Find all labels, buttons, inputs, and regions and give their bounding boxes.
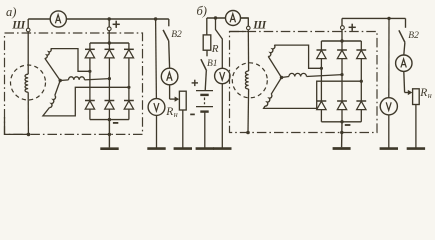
junction minus lead / frame (circuit b) [340,131,343,134]
wire switch to ammeter A2 (circuit b) [404,42,405,55]
svg-text:б): б) [197,4,207,18]
svg-text:а): а) [6,5,16,19]
wire top bus (circuit a) [28,18,169,20]
junction voltmeter branch right (circuit b) [387,17,390,20]
stator phase 3 bottom (circuit b) [271,78,281,95]
junction voltmeter branch (circuit a) [154,17,157,20]
svg-text:Ш: Ш [252,20,267,32]
junction bottom rail / minus lead (circuit a) [108,118,111,121]
junction voltmeter branch left (circuit b) [214,16,217,19]
rheostat Rn body (circuit b) [413,89,420,105]
ground chassis (output voltmeter, circuit b) [388,115,390,148]
diode VD6 bottom (circuit a) [124,100,134,102]
ground chassis (rheostat, circuit a) [182,110,184,148]
svg-text:В1: В1 [207,59,218,69]
wire top bus left part (circuit b) [207,17,249,19]
node AC3 (circuit a) [127,86,130,89]
voltmeter V output (circuit b) [380,98,397,115]
wire bridge top rail (circuit b) [321,40,361,42]
node AC1 (circuit a) [88,70,91,73]
terminal Sh (circuit b) [247,26,251,30]
ground chassis (field voltmeter, circuit b) [221,84,223,148]
svg-text:н: н [428,91,432,100]
ground chassis (rheostat, circuit b) [415,105,417,148]
wire field (Sh to frame bottom, circuit a) [27,32,29,74]
node AC2 (circuit a) [108,77,111,80]
diode VD3 top (circuit a) [128,43,130,49]
battery GB plus plate (circuit b) [196,90,213,92]
voltmeter V (circuit a) [148,99,165,116]
wire bridge bottom rail (circuit a) [90,119,129,121]
svg-text:Ш: Ш [11,20,26,32]
switch B1 blade (circuit b) [201,59,207,71]
wire to switch B2 (circuit a) [168,19,170,26]
wire ammeter A2 to rheostat wiper (circuit a) [169,85,171,99]
terminal plus (circuit b) [341,26,345,30]
wire bridge bottom rail (circuit b) [321,121,361,123]
stator phase 1 top (circuit b) [268,56,281,77]
ground chassis (bridge minus, circuit a) [100,147,118,150]
field coil L1 (rotor winding, circuit a) [25,74,28,92]
wire minus lead to ground (circuit a) [108,120,110,148]
wire plus lead (circuit b) [341,18,343,41]
wire frame bottom-left solid corner (circuit a) [5,117,29,134]
node AC1 (circuit b) [320,67,323,70]
stator star point (circuit a) [59,79,62,82]
battery GB dashed middle (circuit b) [204,98,206,105]
stator phase 3 bottom (circuit a) [55,81,60,96]
battery GB minus plate 2 (circuit b) [200,110,208,112]
diode VD1 top (circuit b) [320,41,322,50]
terminal Sh (circuit a) [26,28,30,32]
wire drop to resistor R (circuit b) [206,18,208,35]
diode VD3 top (circuit b) [360,41,362,50]
diode VD6 bottom (circuit b) [356,100,366,102]
generator housing frame (circuit b, chassis dash-dot box) [230,32,378,133]
junction top rail / plus lead (circuit b) [340,39,343,42]
switch B2 blade (circuit b) [399,30,405,42]
wire bus to Sh (circuit b) [241,18,249,26]
node AC2 (circuit b) [340,73,343,76]
label plus (circuit a) [113,23,120,25]
voltmeter V field (circuit b) [215,68,230,83]
ammeter A1 (field current, circuit b) [226,11,241,26]
ammeter A2 (load current, circuit b) [396,55,412,71]
switch B2 blade (circuit a) [163,30,169,41]
wire voltmeter branch (circuit b) [388,18,390,97]
diode VD5 bottom (circuit b) [337,100,347,102]
stator phase 2 middle (circuit a) [60,79,68,82]
wire top bus right part (circuit b) [342,17,406,19]
resistor R body (circuit b) [203,35,211,50]
label battery minus (circuit b) [190,113,195,115]
ground chassis (battery, circuit b) [204,112,206,148]
diode VD4 bottom (circuit a) [85,100,95,102]
diode VD2 top (circuit b) [341,41,343,50]
field coil L1 (rotor winding, circuit b) [245,71,248,89]
wire voltmeter branch (circuit a) [155,19,158,99]
diode VD1 top (circuit a) [89,43,91,49]
svg-text:В2: В2 [171,30,182,40]
label battery plus (circuit b) [192,82,198,84]
label plus (circuit b) [349,26,356,28]
terminal plus (circuit a) [107,27,111,31]
rheostat Rn body (circuit a) [179,91,186,110]
junction bottom rail / minus lead (circuit b) [340,120,343,123]
junction plus lead / top bus (circuit a) [108,17,111,20]
rotor circle (circuit b) [232,63,267,98]
wire field (circuit b) [247,30,249,71]
rotor circle (circuit a) [11,65,46,100]
generator housing frame (circuit a, chassis dash-dot box) [5,33,143,134]
wire minus lead to ground (circuit b) [341,122,343,147]
wire B1 to battery (circuit b) [205,71,206,91]
diode VD5 bottom (circuit a) [105,100,115,102]
ammeter A1 (field current, circuit a) [50,11,66,27]
junction field/frame (circuit b) [246,131,250,135]
wire to voltmeter Vb (circuit b) [216,18,223,68]
stator phase 1 top (circuit a) [45,58,60,80]
svg-text:н: н [174,110,178,119]
label minus (circuit a) [113,122,118,124]
ammeter A2 (load current, circuit a) [161,68,178,85]
diode VD2 top (circuit a) [108,43,110,49]
diode VD4 bottom (circuit b) [317,100,327,102]
svg-text:R: R [165,106,173,118]
stator star point (circuit b) [280,76,283,79]
svg-text:В2: В2 [408,31,419,41]
ground chassis (voltmeter, circuit a) [156,115,158,147]
node AC3 (circuit b) [360,80,363,83]
wire ammeter A2 to rheostat wiper (circuit b) [403,71,406,92]
wire switch to ammeter A2 (circuit a) [168,41,171,68]
svg-text:R: R [419,87,427,99]
wire bridge top rail (circuit a) [90,42,129,44]
wire frame top-left solid piece (circuit b) [230,31,247,33]
svg-text:R: R [211,43,219,55]
junction field/frame (circuit a) [27,133,31,137]
wire plus lead (circuit a) [108,19,110,43]
battery GB minus plate 1 (circuit b) [200,94,208,96]
wire R to switch B1 (circuit b) [206,50,208,56]
battery GB plus plate 2 (circuit b) [196,106,213,108]
wire Sh drop (circuit a) [27,19,29,28]
label minus (circuit b) [345,124,351,126]
stator phase 2 middle (circuit b) [282,77,289,78]
junction top rail / plus lead (circuit a) [108,41,111,44]
junction minus lead / frame (circuit a) [108,133,111,136]
ground chassis (bridge minus, circuit b) [333,147,351,150]
wire to switch B2 (circuit b) [405,18,407,27]
